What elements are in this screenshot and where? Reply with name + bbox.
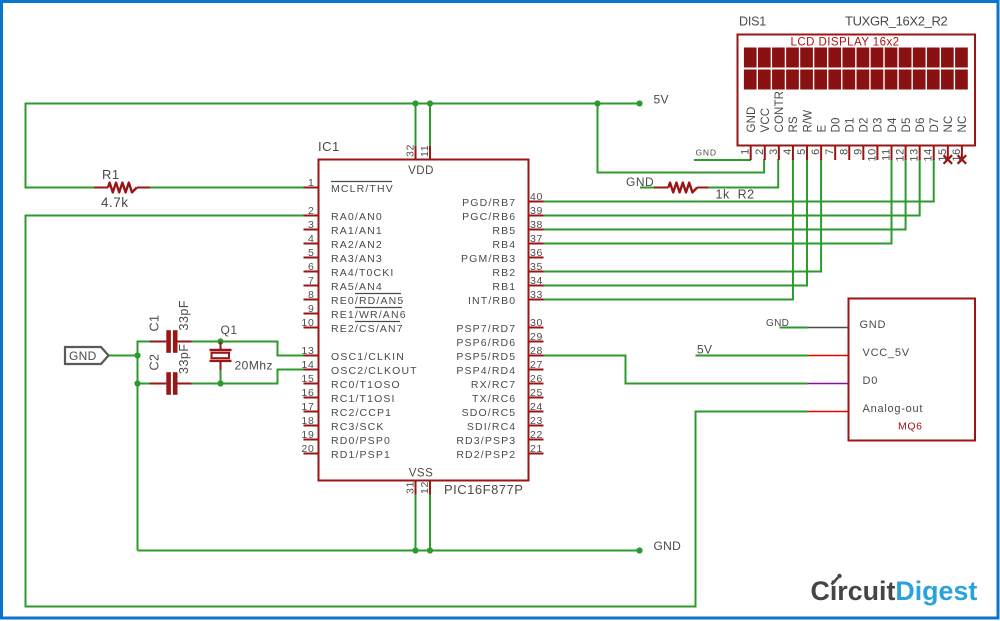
svg-text:8: 8 <box>838 148 850 155</box>
svg-text:23: 23 <box>530 415 543 427</box>
svg-text:TX/RC6: TX/RC6 <box>472 393 516 405</box>
svg-text:PSP5/RD5: PSP5/RD5 <box>456 351 516 363</box>
svg-text:OSC2/CLKOUT: OSC2/CLKOUT <box>331 365 418 377</box>
svg-text:D2: D2 <box>859 117 871 132</box>
svg-text:Analog-out: Analog-out <box>863 403 924 415</box>
svg-text:RD0/PSP0: RD0/PSP0 <box>331 435 391 447</box>
svg-text:13: 13 <box>909 148 921 162</box>
svg-text:36: 36 <box>530 247 543 259</box>
svg-text:RA3/AN3: RA3/AN3 <box>331 253 383 265</box>
svg-text:CONTR: CONTR <box>774 91 786 133</box>
svg-text:34: 34 <box>530 275 543 287</box>
svg-text:PGM/RB3: PGM/RB3 <box>461 253 516 265</box>
svg-text:OSC1/CLKIN: OSC1/CLKIN <box>331 351 405 363</box>
svg-text:GND: GND <box>860 319 887 331</box>
svg-text:RX/RC7: RX/RC7 <box>471 379 516 391</box>
svg-text:40: 40 <box>530 191 543 203</box>
svg-text:GND: GND <box>626 175 654 189</box>
svg-text:35: 35 <box>530 261 543 273</box>
svg-text:PSP7/RD7: PSP7/RD7 <box>456 323 516 335</box>
svg-text:MQ6: MQ6 <box>898 421 923 433</box>
svg-text:SDI/RC4: SDI/RC4 <box>467 421 516 433</box>
svg-text:DIS1: DIS1 <box>739 15 766 29</box>
svg-text:D1: D1 <box>845 117 857 132</box>
svg-text:VCC_5V: VCC_5V <box>863 347 910 359</box>
svg-text:5: 5 <box>308 247 315 259</box>
svg-text:D6: D6 <box>915 117 927 132</box>
svg-text:PSP4/RD4: PSP4/RD4 <box>456 365 516 377</box>
svg-text:PSP6/RD6: PSP6/RD6 <box>456 337 516 349</box>
svg-text:25: 25 <box>530 387 543 399</box>
svg-text:14: 14 <box>923 148 935 162</box>
svg-text:NC: NC <box>957 116 969 133</box>
svg-text:38: 38 <box>530 219 543 231</box>
svg-text:RC0/T1OSO: RC0/T1OSO <box>331 379 401 391</box>
svg-text:GND: GND <box>69 349 97 363</box>
svg-text:VCC: VCC <box>760 108 772 133</box>
svg-text:RB2: RB2 <box>492 267 516 279</box>
svg-text:12: 12 <box>895 148 907 162</box>
svg-text:28: 28 <box>530 345 543 357</box>
svg-text:RB4: RB4 <box>492 239 516 251</box>
svg-text:3: 3 <box>308 219 315 231</box>
svg-text:7: 7 <box>824 148 836 155</box>
svg-text:SDO/RC5: SDO/RC5 <box>462 407 517 419</box>
svg-text:8: 8 <box>308 289 315 301</box>
svg-text:RS: RS <box>788 116 800 132</box>
svg-text:VSS: VSS <box>409 468 434 480</box>
svg-text:32: 32 <box>405 144 417 157</box>
svg-text:11: 11 <box>881 148 893 161</box>
svg-text:E: E <box>816 125 828 133</box>
svg-text:24: 24 <box>530 401 543 413</box>
svg-text:37: 37 <box>530 233 543 245</box>
svg-text:39: 39 <box>530 205 543 217</box>
svg-text:33: 33 <box>530 289 543 301</box>
svg-text:VDD: VDD <box>408 165 434 177</box>
svg-text:16: 16 <box>301 387 314 399</box>
svg-text:MCLR/THV: MCLR/THV <box>331 183 394 195</box>
svg-text:RD1/PSP1: RD1/PSP1 <box>331 449 391 461</box>
svg-text:PGC/RB6: PGC/RB6 <box>462 211 516 223</box>
svg-text:29: 29 <box>530 331 543 343</box>
svg-text:30: 30 <box>530 317 543 329</box>
svg-text:1k R2: 1k R2 <box>716 188 755 202</box>
svg-text:TUXGR_16X2_R2: TUXGR_16X2_R2 <box>845 14 948 29</box>
svg-text:LCD DISPLAY 16x2: LCD DISPLAY 16x2 <box>790 37 899 49</box>
svg-text:RE2/CS/AN7: RE2/CS/AN7 <box>331 323 404 335</box>
svg-text:RE0/RD/AN5: RE0/RD/AN5 <box>331 295 404 307</box>
svg-text:6: 6 <box>810 148 822 155</box>
svg-text:20: 20 <box>301 443 314 455</box>
svg-text:RB5: RB5 <box>492 225 516 237</box>
svg-text:INT/RB0: INT/RB0 <box>468 295 516 307</box>
svg-text:RD3/PSP3: RD3/PSP3 <box>456 435 516 447</box>
svg-text:D4: D4 <box>887 117 899 132</box>
svg-text:33pF: 33pF <box>177 300 191 331</box>
svg-text:RB1: RB1 <box>492 281 516 293</box>
svg-text:R1: R1 <box>102 167 120 182</box>
svg-text:GND: GND <box>654 539 682 553</box>
svg-text:2: 2 <box>754 148 766 155</box>
svg-text:RA1/AN1: RA1/AN1 <box>331 225 383 237</box>
svg-text:C2: C2 <box>147 354 161 371</box>
svg-text:Q1: Q1 <box>221 323 238 337</box>
svg-text:D0: D0 <box>863 375 879 387</box>
svg-text:D0: D0 <box>830 117 842 132</box>
svg-text:17: 17 <box>301 401 314 413</box>
svg-text:RC2/CCP1: RC2/CCP1 <box>331 407 392 419</box>
svg-text:13: 13 <box>301 345 314 357</box>
svg-text:RA2/AN2: RA2/AN2 <box>331 239 383 251</box>
svg-text:4: 4 <box>782 148 794 155</box>
svg-text:GND: GND <box>746 106 758 132</box>
svg-text:1: 1 <box>308 177 315 189</box>
svg-text:26: 26 <box>530 373 543 385</box>
svg-text:RA5/AN4: RA5/AN4 <box>331 281 383 293</box>
svg-text:9: 9 <box>852 148 864 155</box>
svg-text:11: 11 <box>419 145 431 157</box>
svg-text:GND: GND <box>766 318 789 329</box>
svg-text:20Mhz: 20Mhz <box>235 359 274 373</box>
svg-text:27: 27 <box>530 359 543 371</box>
svg-text:10: 10 <box>866 148 878 162</box>
svg-text:RD2/PSP2: RD2/PSP2 <box>456 449 516 461</box>
svg-text:12: 12 <box>419 481 431 494</box>
svg-text:5V: 5V <box>654 93 669 107</box>
svg-text:18: 18 <box>301 415 314 427</box>
svg-text:5V: 5V <box>697 343 712 357</box>
svg-text:2: 2 <box>308 205 315 217</box>
svg-text:RC3/SCK: RC3/SCK <box>331 421 385 433</box>
svg-text:3: 3 <box>768 148 780 155</box>
svg-text:R/W: R/W <box>802 110 814 133</box>
svg-text:10: 10 <box>301 317 314 329</box>
svg-text:1: 1 <box>740 148 752 155</box>
svg-text:C1: C1 <box>147 315 161 332</box>
svg-text:RA0/AN0: RA0/AN0 <box>331 211 383 223</box>
svg-text:9: 9 <box>308 303 315 315</box>
svg-text:14: 14 <box>301 359 314 371</box>
svg-text:PGD/RB7: PGD/RB7 <box>462 197 516 209</box>
svg-text:D7: D7 <box>929 117 941 132</box>
svg-text:4.7k: 4.7k <box>101 195 129 210</box>
svg-text:PIC16F877P: PIC16F877P <box>444 482 523 497</box>
svg-text:IC1: IC1 <box>318 139 340 154</box>
svg-text:19: 19 <box>301 429 314 441</box>
svg-text:RA4/T0CKI: RA4/T0CKI <box>331 267 394 279</box>
svg-text:31: 31 <box>405 481 417 494</box>
svg-text:D3: D3 <box>873 117 885 132</box>
svg-text:6: 6 <box>308 261 315 273</box>
svg-text:GND: GND <box>696 148 717 158</box>
svg-text:4: 4 <box>308 233 315 245</box>
svg-text:22: 22 <box>530 429 543 441</box>
svg-text:7: 7 <box>308 275 315 287</box>
svg-text:RE1/WR/AN6: RE1/WR/AN6 <box>331 309 407 321</box>
svg-text:D5: D5 <box>901 117 913 132</box>
svg-text:RC1/T1OSI: RC1/T1OSI <box>331 393 396 405</box>
svg-text:NC: NC <box>943 116 955 133</box>
svg-text:15: 15 <box>301 373 314 385</box>
svg-text:33pF: 33pF <box>177 344 191 375</box>
svg-text:5: 5 <box>796 148 808 155</box>
svg-text:21: 21 <box>530 443 543 455</box>
